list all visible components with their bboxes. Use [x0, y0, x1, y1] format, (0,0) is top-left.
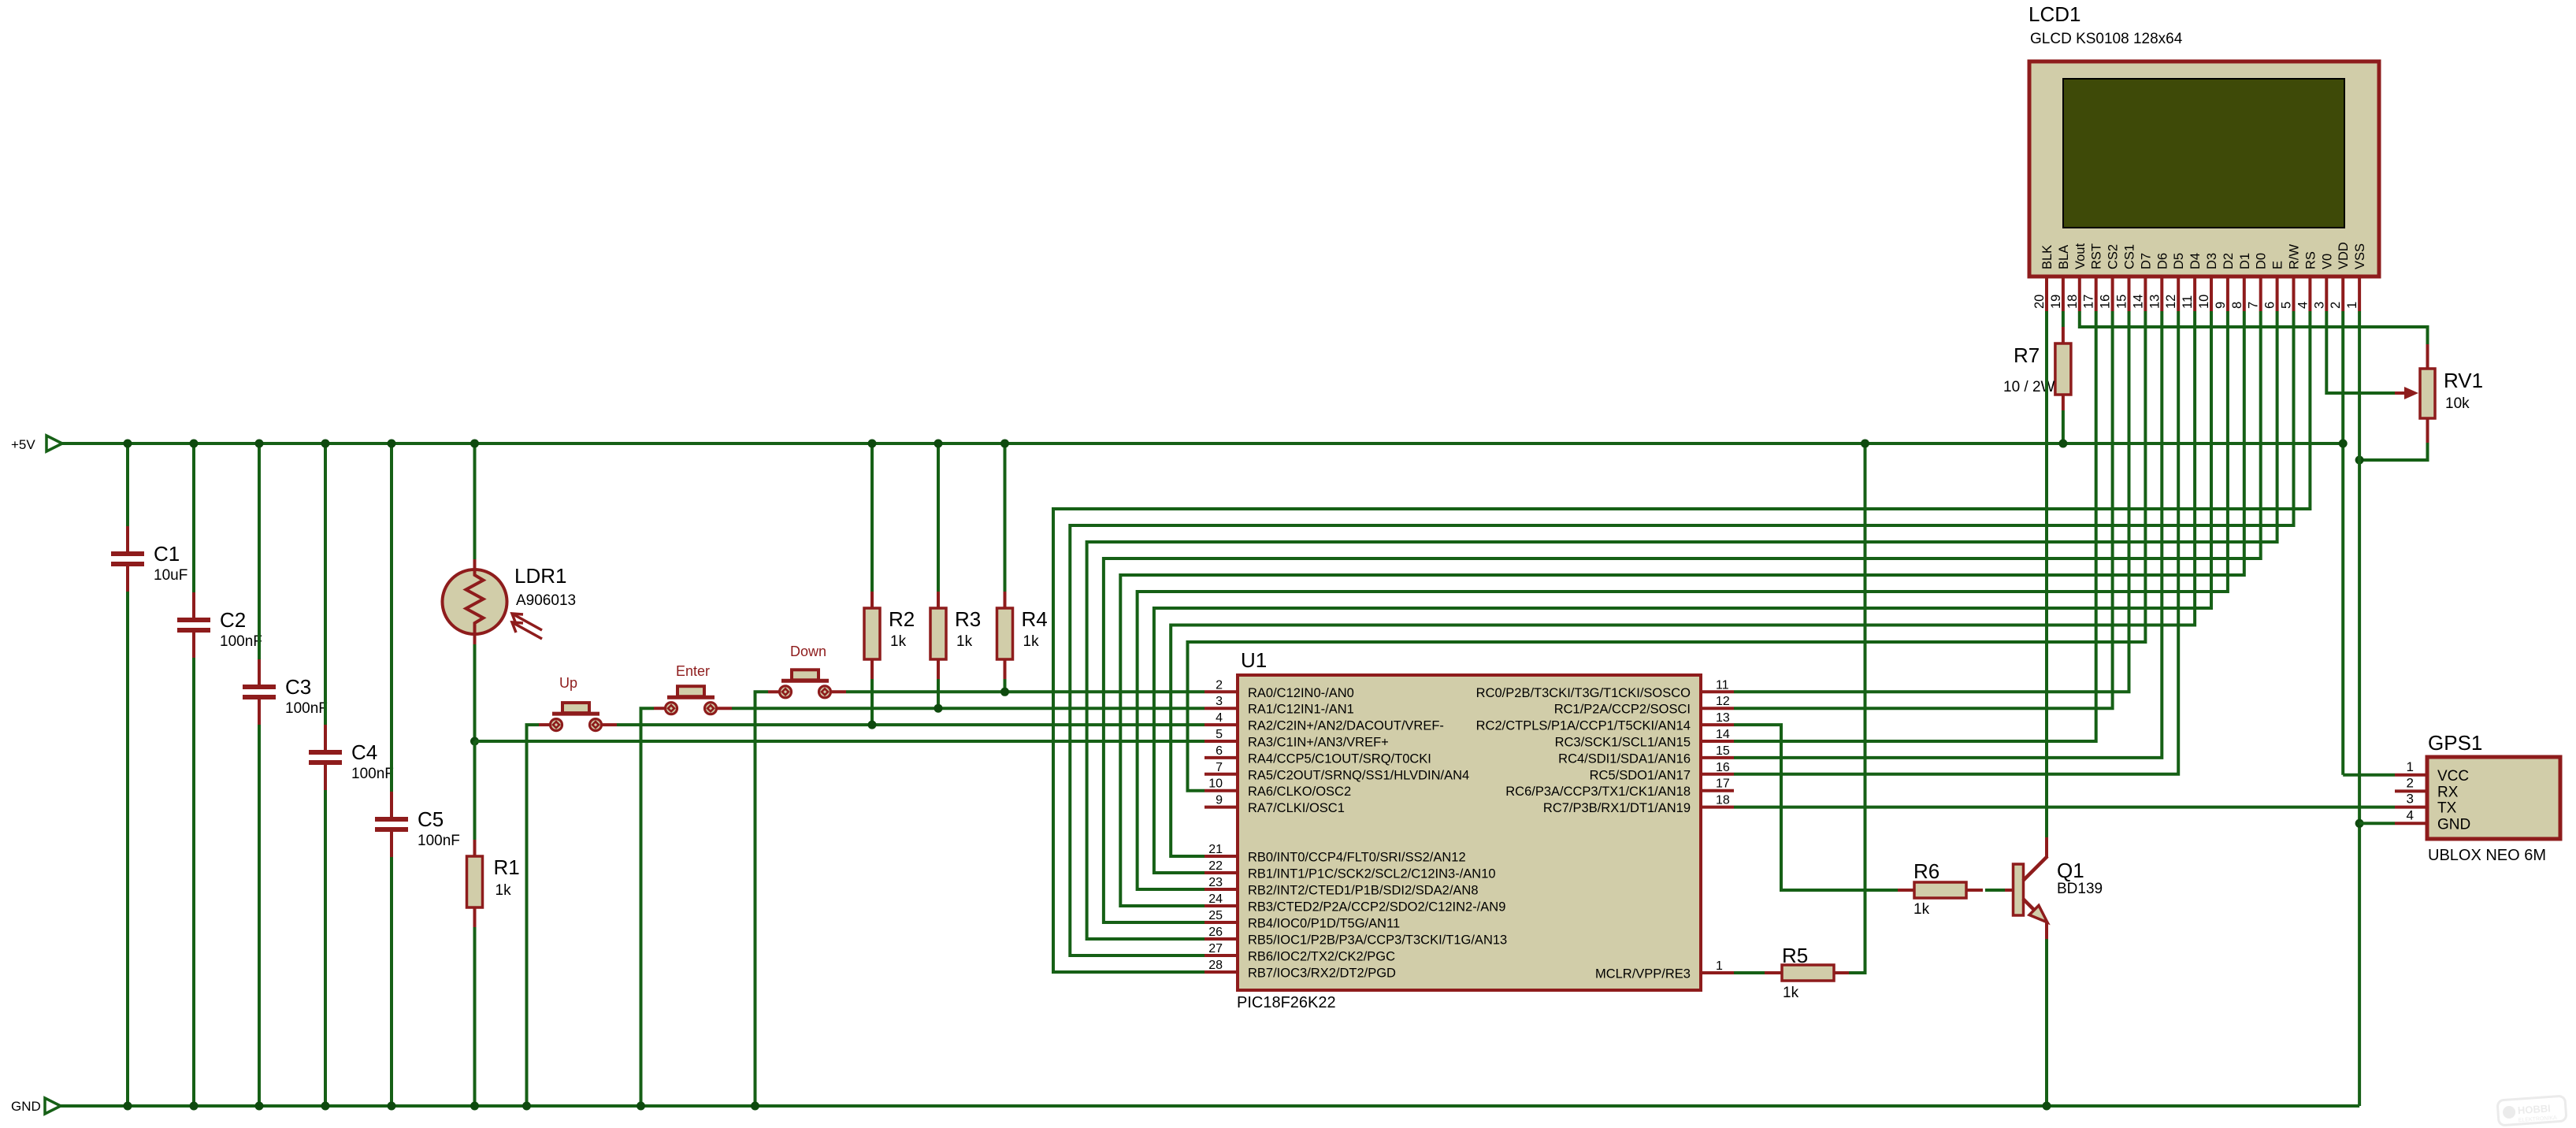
pin 2 VDD of LCD1	[2329, 242, 2351, 311]
wire Up row to U1 RA2	[617, 723, 1204, 726]
pin 10 D3 of LCD1	[2197, 253, 2219, 311]
svg-text:E: E	[2271, 261, 2285, 269]
svg-text:R4: R4	[1022, 607, 1048, 631]
svg-text:3: 3	[1216, 695, 1223, 708]
wire node to R1	[473, 741, 477, 840]
pin 6 RA4 stub	[1204, 744, 1431, 766]
svg-text:C4: C4	[351, 740, 377, 764]
svg-text:10k: 10k	[2445, 395, 2470, 412]
LDR LDR1	[443, 559, 577, 644]
pin 5 R/W of LCD1	[2280, 244, 2302, 312]
svg-text:LCD1: LCD1	[2029, 2, 2080, 26]
wire LCD VDD down to GPS VCC row	[2341, 311, 2344, 775]
wire LCD BLA to R7	[2062, 311, 2065, 327]
wire +5V to R3	[937, 443, 940, 592]
resistor R2	[864, 592, 915, 679]
wire U1 pin 24 RB3 to LCD D1	[1120, 311, 2244, 906]
svg-text:20: 20	[2032, 295, 2047, 309]
pin 15 RC4 stub	[1558, 744, 1734, 766]
svg-text:R1: R1	[494, 855, 520, 879]
wire U1 pin 10 RA6 to LCD D7	[1188, 311, 2146, 791]
wire C1 to GND	[126, 592, 129, 1106]
wire LDR1 to node	[473, 644, 477, 741]
pin 19 BLA of LCD1	[2049, 245, 2071, 311]
node +5V junction C3	[255, 440, 264, 448]
pin 12 RC1 stub	[1554, 695, 1734, 717]
svg-text:5: 5	[1216, 728, 1223, 741]
pin 21 RB0 stub	[1204, 843, 1466, 865]
svg-text:1k: 1k	[956, 633, 973, 650]
IC U1 PIC18F26K22 body	[1237, 648, 1701, 1011]
wire +5V to R2	[870, 443, 874, 592]
potentiometer RV1	[2395, 344, 2483, 443]
svg-text:12: 12	[1716, 695, 1730, 708]
pin 4 GND of GPS1	[2395, 807, 2470, 833]
pin 16 RC5 stub	[1590, 761, 1734, 783]
svg-text:23: 23	[1208, 876, 1223, 889]
svg-text:1k: 1k	[1783, 985, 1799, 1001]
resistor R3	[930, 592, 981, 679]
svg-text:R3: R3	[955, 607, 981, 631]
wire +5V to C5	[390, 443, 393, 792]
svg-text:RA3/C1IN+/AN3/VREF+: RA3/C1IN+/AN3/VREF+	[1248, 736, 1389, 750]
svg-text:UBLOX NEO 6M: UBLOX NEO 6M	[2428, 847, 2546, 864]
svg-text:22: 22	[1208, 859, 1223, 873]
svg-text:D3: D3	[2205, 253, 2219, 269]
svg-text:2: 2	[1216, 678, 1223, 692]
wire U1 pin 15 RC4 to LCD D6	[1734, 311, 2162, 758]
node +5V junction C2	[190, 440, 199, 448]
svg-text:D0: D0	[2255, 253, 2269, 269]
pin 8 D1 of LCD1	[2230, 253, 2252, 311]
svg-text:V0: V0	[2320, 254, 2334, 269]
svg-text:RB6/IOC2/TX2/CK2/PGC: RB6/IOC2/TX2/CK2/PGC	[1248, 950, 1395, 964]
pin 6 E of LCD1	[2263, 261, 2285, 311]
svg-text:1: 1	[1716, 959, 1723, 973]
wire U1 pin 27 RB6 to LCD R/W	[1070, 311, 2293, 955]
node +5V junction R2	[868, 440, 877, 448]
svg-text:15: 15	[1716, 744, 1730, 758]
resistor R7	[2003, 327, 2071, 410]
wire R3 to button row	[937, 679, 940, 708]
resistor R6	[1898, 859, 1983, 918]
pin 13 D6 of LCD1	[2147, 253, 2170, 311]
svg-text:RC3/SCK1/SCL1/AN15: RC3/SCK1/SCL1/AN15	[1555, 736, 1691, 750]
svg-text:16: 16	[1716, 761, 1730, 774]
svg-text:D6: D6	[2155, 253, 2170, 269]
pin 1 MCLR stub	[1595, 959, 1734, 981]
pin 4 RS of LCD1	[2296, 251, 2318, 311]
node GND junction Enter	[637, 1102, 645, 1111]
wire U1 pin 28 RB7 to LCD RS	[1053, 311, 2310, 972]
wire +5V to C2	[192, 443, 195, 592]
node VSS junction GPS GND	[2355, 819, 2364, 828]
svg-text:26: 26	[1208, 926, 1223, 939]
svg-text:1: 1	[2407, 759, 2414, 774]
svg-text:RA5/C2OUT/SRNQ/SS1/HLVDIN/AN4: RA5/C2OUT/SRNQ/SS1/HLVDIN/AN4	[1248, 768, 1469, 782]
wire R5 to +5V rail	[1849, 443, 1865, 973]
node +5V power symbol	[11, 436, 62, 452]
wire U1 RC7 to GPS TX	[1734, 806, 2395, 809]
display LCD1 GLCD body	[2029, 2, 2379, 276]
node +5V junction R3	[934, 440, 943, 448]
capacitor C3	[243, 659, 328, 725]
svg-text:GLCD KS0108 128x64: GLCD KS0108 128x64	[2030, 31, 2183, 47]
svg-text:6: 6	[2263, 302, 2277, 309]
svg-text:U1: U1	[1241, 648, 1267, 672]
svg-text:GND: GND	[2437, 816, 2470, 833]
svg-text:D7: D7	[2139, 253, 2153, 269]
svg-text:D1: D1	[2238, 253, 2252, 269]
svg-text:GPS1: GPS1	[2428, 731, 2482, 755]
svg-text:RA6/CLKO/OSC2: RA6/CLKO/OSC2	[1248, 785, 1351, 799]
node GND junction C1	[124, 1102, 132, 1111]
wire U1 pin 22 RB1 to LCD D3	[1154, 311, 2211, 873]
svg-text:17: 17	[2082, 295, 2096, 309]
wire +5V to R4	[1004, 443, 1007, 592]
svg-text:100nF: 100nF	[285, 700, 328, 717]
svg-text:R6: R6	[1913, 859, 1939, 883]
wire LCD VSS to GND rail	[2358, 311, 2361, 1106]
svg-text:2: 2	[2329, 302, 2343, 309]
wire Enter button to GND	[641, 708, 655, 1106]
pin 15 CS1 of LCD1	[2115, 244, 2137, 311]
resistor R4	[997, 592, 1048, 679]
svg-text:C2: C2	[220, 608, 246, 632]
wire +5V rail	[62, 442, 2343, 445]
wire R7 to +5V rail	[2062, 410, 2065, 443]
svg-text:17: 17	[1716, 777, 1730, 791]
svg-text:25: 25	[1208, 909, 1223, 922]
pin 13 RC2 stub	[1476, 711, 1734, 733]
svg-text:C1: C1	[154, 542, 180, 566]
svg-text:Down: Down	[790, 644, 826, 659]
svg-text:R5: R5	[1782, 944, 1808, 967]
wire U1 pin 12 RC1 to LCD CS2	[1734, 311, 2113, 708]
svg-text:R2: R2	[889, 607, 915, 631]
capacitor C4	[309, 725, 394, 790]
svg-text:RB2/INT2/CTED1/P1B/SDI2/SDA2/A: RB2/INT2/CTED1/P1B/SDI2/SDA2/AN8	[1248, 884, 1479, 898]
svg-text:R7: R7	[2014, 343, 2040, 367]
svg-text:RA2/C2IN+/AN2/DACOUT/VREF-: RA2/C2IN+/AN2/DACOUT/VREF-	[1248, 719, 1444, 733]
svg-text:1: 1	[2345, 302, 2359, 309]
svg-text:BLK: BLK	[2040, 245, 2054, 269]
wire C5 to GND	[390, 857, 393, 1106]
pin 3 V0 of LCD1	[2312, 254, 2334, 311]
resistor R5	[1765, 944, 1849, 1001]
svg-text:CS1: CS1	[2123, 244, 2137, 269]
svg-text:HOBBI: HOBBI	[2517, 1102, 2551, 1116]
pin 7 D0 of LCD1	[2247, 253, 2269, 311]
node GND junction C2	[190, 1102, 199, 1111]
svg-text:10: 10	[2197, 295, 2211, 309]
svg-text:RC1/P2A/CCP2/SOSCI: RC1/P2A/CCP2/SOSCI	[1554, 703, 1691, 717]
node GND junction R1	[470, 1102, 479, 1111]
wire RV1 bottom to VSS net	[2359, 443, 2427, 460]
svg-text:13: 13	[1716, 711, 1730, 725]
svg-text:RB7/IOC3/RX2/DT2/PGD: RB7/IOC3/RX2/DT2/PGD	[1248, 967, 1396, 981]
pin 2 RA0 stub	[1204, 678, 1354, 700]
svg-text:Q1: Q1	[2057, 859, 2084, 882]
wire U1 pin 21 RB0 to LCD D4	[1171, 311, 2195, 856]
wire C4 to GND	[324, 790, 327, 1106]
svg-text:RX: RX	[2437, 784, 2459, 800]
wire U1 pin 26 RB5 to LCD E	[1087, 311, 2277, 939]
svg-text:BD139: BD139	[2057, 881, 2103, 897]
wire R4 to button row	[1004, 679, 1007, 692]
wire VDD to GPS VCC	[2343, 774, 2395, 777]
svg-text:100nF: 100nF	[220, 633, 262, 650]
wire +5V to C1	[126, 443, 129, 526]
pin 20 BLK of LCD1	[2032, 245, 2054, 311]
push button Down	[768, 644, 846, 698]
pin 28 RB7 stub	[1204, 959, 1396, 981]
svg-text:4: 4	[2407, 807, 2414, 822]
wire +5V to C3	[258, 443, 261, 659]
wire U1 pin 23 RB2 to LCD D2	[1138, 311, 2228, 889]
svg-text:CS2: CS2	[2106, 244, 2121, 269]
svg-text:RB5/IOC1/P2B/P3A/CCP3/T3CKI/T1: RB5/IOC1/P2B/P3A/CCP3/T3CKI/T1G/AN13	[1248, 933, 1507, 948]
node +5V junction R7	[2058, 440, 2067, 448]
node R4 junction	[1000, 688, 1009, 696]
svg-text:28: 28	[1208, 959, 1223, 972]
wire Up button to GND	[527, 725, 540, 1106]
node +5V junction LDR1	[470, 440, 479, 448]
transistor Q1 BD139	[1985, 837, 2103, 939]
wire MCLR to R5	[1734, 971, 1765, 974]
node GND junction Q1	[2043, 1102, 2051, 1111]
svg-text:18: 18	[2066, 295, 2080, 309]
pin 4 RA2 stub	[1204, 711, 1444, 733]
push button Up	[539, 675, 617, 731]
svg-text:1k: 1k	[496, 882, 512, 899]
svg-text:Up: Up	[559, 675, 577, 691]
pin 17 RC6 stub	[1505, 777, 1734, 800]
module GPS1 UBLOX NEO 6M body	[2427, 731, 2560, 864]
pin 22 RB1 stub	[1204, 859, 1496, 881]
wire U1 pin 14 RC3 to LCD RST	[1734, 311, 2096, 741]
pin 24 RB3 stub	[1204, 892, 1505, 915]
pin 11 RC0 stub	[1476, 678, 1734, 700]
svg-text:24: 24	[1208, 892, 1223, 906]
wire Down button to GND	[755, 692, 769, 1106]
node GND junction Down	[751, 1102, 759, 1111]
svg-text:VSS: VSS	[2353, 243, 2367, 269]
svg-text:11: 11	[1716, 678, 1729, 692]
svg-text:VCC: VCC	[2437, 768, 2469, 785]
svg-text:RC4/SDI1/SDA1/AN16: RC4/SDI1/SDA1/AN16	[1558, 751, 1691, 766]
pin 10 RA6 stub	[1204, 777, 1351, 800]
pin 25 RB4 stub	[1204, 909, 1400, 931]
wire GPS GND to VSS net	[2359, 822, 2395, 825]
node GND junction Up	[522, 1102, 531, 1111]
svg-text:3: 3	[2312, 302, 2326, 309]
svg-text:GND: GND	[11, 1099, 41, 1114]
node GND junction C3	[255, 1102, 264, 1111]
svg-text:RB1/INT1/P1C/SCK2/SCL2/C12IN3-: RB1/INT1/P1C/SCK2/SCL2/C12IN3-/AN10	[1248, 867, 1496, 881]
pin 17 RST of LCD1	[2082, 243, 2104, 311]
pin 26 RB5 stub	[1204, 926, 1507, 948]
watermark	[2497, 1096, 2567, 1126]
node +5V junction R4	[1000, 440, 1009, 448]
svg-text:R/W: R/W	[2288, 244, 2302, 270]
svg-text:MCLR/VPP/RE3: MCLR/VPP/RE3	[1595, 967, 1691, 981]
wire +5V to C4	[324, 443, 327, 725]
svg-text:21: 21	[1208, 843, 1223, 856]
pin 23 RB2 stub	[1204, 876, 1479, 898]
svg-text:13: 13	[2147, 295, 2162, 309]
node +5V junction VDD	[2339, 440, 2348, 448]
svg-text:RB3/CTED2/P2A/CCP2/SDO2/C12IN2: RB3/CTED2/P2A/CCP2/SDO2/C12IN2-/AN9	[1248, 900, 1505, 915]
svg-text:RA4/CCP5/C1OUT/SRQ/T0CKI: RA4/CCP5/C1OUT/SRQ/T0CKI	[1248, 751, 1431, 766]
push button Enter	[654, 663, 732, 714]
node LDR1/R1 junction	[470, 737, 479, 746]
svg-text:7: 7	[1216, 761, 1223, 774]
node +5V junction R5	[1861, 440, 1869, 448]
wire LCD Vout to RV1 top	[2080, 311, 2428, 344]
svg-text:1k: 1k	[1913, 901, 1930, 918]
wire Down row to U1 RA0	[846, 690, 1204, 693]
svg-text:RC7/P3B/RX1/DT1/AN19: RC7/P3B/RX1/DT1/AN19	[1543, 801, 1691, 815]
pin 9 RA7 stub	[1204, 794, 1345, 816]
pin 7 RA5 stub	[1204, 761, 1469, 783]
svg-text:Enter: Enter	[676, 663, 710, 679]
svg-text:RS: RS	[2303, 251, 2318, 269]
pin 1 VSS of LCD1	[2345, 243, 2367, 311]
wire U1 pin 16 RC5 to LCD D5	[1734, 311, 2178, 774]
svg-text:RC2/CTPLS/P1A/CCP1/T5CKI/AN14: RC2/CTPLS/P1A/CCP1/T5CKI/AN14	[1476, 719, 1691, 733]
wire R2 to button row	[870, 679, 874, 725]
svg-text:1k: 1k	[890, 633, 907, 650]
svg-text:18: 18	[1716, 794, 1730, 807]
svg-text:27: 27	[1208, 942, 1223, 955]
svg-text:BLA: BLA	[2057, 245, 2071, 269]
resistor R1	[467, 840, 520, 927]
wire LCD BLK down to Q1 collector	[2045, 311, 2048, 837]
wire Q1 emitter to GND	[2045, 939, 2048, 1106]
wire Enter row to U1 RA1	[732, 707, 1204, 710]
svg-text:100nF: 100nF	[418, 833, 460, 849]
pin 27 RB6 stub	[1204, 942, 1395, 964]
svg-text:RC5/SDO1/AN17: RC5/SDO1/AN17	[1590, 768, 1691, 782]
svg-text:RA0/C12IN0-/AN0: RA0/C12IN0-/AN0	[1248, 686, 1354, 700]
svg-text:11: 11	[2181, 295, 2195, 309]
wire GND rail	[61, 1104, 2359, 1108]
svg-text:D4: D4	[2188, 253, 2203, 269]
svg-text:RB4/IOC0/P1D/T5G/AN11: RB4/IOC0/P1D/T5G/AN11	[1248, 917, 1400, 931]
pin 5 RA3 stub	[1204, 728, 1389, 750]
pin 1 VCC of GPS1	[2395, 759, 2469, 785]
capacitor C1	[111, 526, 187, 592]
svg-text:19: 19	[2049, 295, 2063, 309]
svg-text:+5V: +5V	[11, 437, 35, 452]
svg-text:14: 14	[1716, 728, 1730, 741]
ground symbol GND	[11, 1098, 61, 1114]
pin 11 D4 of LCD1	[2181, 253, 2203, 311]
wire LDR node to U1 RA3	[475, 740, 1205, 743]
svg-text:6: 6	[1216, 744, 1223, 758]
svg-text:5: 5	[2280, 302, 2294, 309]
wire R1 to GND	[473, 927, 477, 1106]
pin 2 RX of GPS1	[2395, 775, 2459, 800]
capacitor C5	[375, 792, 460, 857]
node +5V junction C5	[388, 440, 396, 448]
svg-text:10: 10	[1208, 777, 1223, 791]
wire U1 pin 25 RB4 to LCD D0	[1104, 311, 2261, 922]
svg-text:3: 3	[2407, 792, 2414, 807]
pin 3 TX of GPS1	[2395, 792, 2457, 817]
svg-text:Vout: Vout	[2073, 243, 2088, 269]
svg-text:RV1: RV1	[2444, 369, 2483, 392]
node +5V junction C4	[321, 440, 330, 448]
svg-text:RST: RST	[2090, 243, 2104, 269]
svg-text:PIC18F26K22: PIC18F26K22	[1237, 994, 1336, 1011]
svg-text:7: 7	[2247, 302, 2261, 309]
node +5V junction C1	[124, 440, 132, 448]
node GND junction C4	[321, 1102, 330, 1111]
svg-text:9: 9	[1216, 794, 1223, 807]
svg-text:12: 12	[2164, 295, 2178, 309]
pin 14 RC3 stub	[1555, 728, 1734, 750]
svg-text:10uF: 10uF	[154, 567, 187, 584]
pin 3 RA1 stub	[1204, 695, 1354, 717]
node R2 junction	[868, 721, 877, 729]
svg-text:16: 16	[2099, 295, 2113, 309]
svg-text:4: 4	[2296, 302, 2310, 309]
svg-text:RB0/INT0/CCP4/FLT0/SRI/SS2/AN1: RB0/INT0/CCP4/FLT0/SRI/SS2/AN12	[1248, 851, 1466, 865]
svg-text:A906013: A906013	[516, 592, 576, 609]
wire U1 pin 11 RC0 to LCD CS1	[1734, 311, 2129, 692]
capacitor C2	[177, 592, 262, 658]
svg-text:C5: C5	[418, 807, 444, 831]
svg-text:LDR1: LDR1	[514, 564, 566, 588]
wire C3 to GND	[258, 725, 261, 1106]
node GND junction C5	[388, 1102, 396, 1111]
node R3 junction	[934, 704, 943, 713]
svg-text:100nF: 100nF	[351, 766, 394, 782]
svg-text:TX: TX	[2437, 800, 2457, 817]
svg-text:RC0/P2B/T3CKI/T3G/T1CKI/SOSCO: RC0/P2B/T3CKI/T3G/T1CKI/SOSCO	[1476, 686, 1691, 700]
svg-text:14: 14	[2131, 295, 2145, 309]
pin 18 Vout of LCD1	[2066, 243, 2088, 311]
svg-text:RC6/P3A/CCP3/TX1/CK1/AN18: RC6/P3A/CCP3/TX1/CK1/AN18	[1505, 785, 1691, 799]
wire LCD V0 to RV1 wiper	[2326, 311, 2395, 393]
pin 12 D5 of LCD1	[2164, 253, 2186, 311]
svg-text:RA7/CLKI/OSC1: RA7/CLKI/OSC1	[1248, 801, 1345, 815]
wire +5V to LDR1	[473, 443, 477, 559]
svg-text:8: 8	[2230, 302, 2244, 309]
svg-text:D2: D2	[2222, 253, 2236, 269]
svg-text:1k: 1k	[1023, 633, 1040, 650]
svg-text:VDD: VDD	[2337, 242, 2351, 269]
svg-text:C3: C3	[285, 675, 311, 699]
svg-text:4: 4	[1216, 711, 1223, 725]
svg-text:D5: D5	[2172, 253, 2186, 269]
svg-text:15: 15	[2115, 295, 2129, 309]
pin 14 D7 of LCD1	[2131, 253, 2153, 311]
svg-text:2: 2	[2407, 775, 2414, 790]
wire C2 to GND	[192, 658, 195, 1106]
svg-text:RA1/C12IN1-/AN1: RA1/C12IN1-/AN1	[1248, 703, 1354, 717]
node VSS/RV1 junction	[2355, 456, 2364, 465]
svg-text:9: 9	[2214, 302, 2228, 309]
wire U1 RC2 to R6	[1734, 725, 1898, 890]
pin 9 D2 of LCD1	[2214, 253, 2236, 311]
pin 16 CS2 of LCD1	[2099, 244, 2121, 311]
pin 18 RC7 stub	[1543, 794, 1734, 816]
